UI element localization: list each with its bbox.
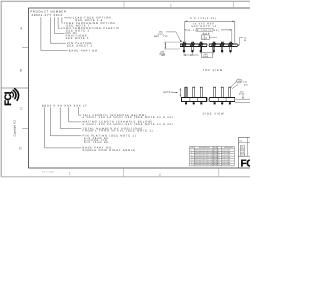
top view pin 4 tail [213, 47, 214, 51]
title block frame [238, 138, 250, 169]
svg-text:FCI: FCI [241, 158, 251, 169]
tree2 leader: total positions [60, 107, 81, 128]
inner drawing frame [29, 8, 250, 168]
small right dim [239, 90, 245, 95]
tail pitch dim line [184, 54, 199, 56]
top view pin 4 mating end [211, 42, 215, 47]
pin length dim arrow [179, 88, 181, 97]
tree1 label: base part no [69, 49, 100, 52]
svg-text:B: B [20, 69, 22, 73]
tree2 label: base part no [83, 147, 136, 152]
FCI logo rotated [2, 92, 13, 106]
tree1 leader: pin plating [51, 17, 66, 43]
tree2 leader: tail length [79, 107, 82, 115]
dim .050 text [154, 31, 168, 38]
dim N-1 pitch: text [184, 29, 186, 30]
top view pin 3 mating end [199, 42, 203, 47]
tree1 leader: base part no [41, 17, 68, 50]
top view pin 1 mating end [182, 42, 186, 47]
tree1 leader: lead free [65, 16, 72, 19]
side view pin 3 [200, 87, 202, 97]
tree2 label: mating length [83, 121, 174, 126]
dim .050 leader [166, 32, 181, 42]
top view pin 2 mating end [190, 42, 194, 47]
side view base group1 [182, 98, 207, 102]
dim N-1 pitch: part box [196, 28, 213, 31]
svg-text:FCI: FCI [2, 92, 13, 106]
side view pin 4 [214, 87, 216, 97]
svg-text:N X.100(2.54): N X.100(2.54) [190, 17, 217, 20]
side view pin 6 [229, 87, 231, 97]
side view pin 2 tail [193, 102, 195, 104]
revision table text [190, 146, 234, 166]
tree2 leader: pin plating [50, 107, 81, 136]
title block cell text [241, 146, 246, 157]
balloon leader side view [231, 82, 237, 87]
svg-text:SIDE VIEW: SIDE VIEW [203, 113, 225, 116]
dim N-1 pitch: arrow line [221, 29, 232, 31]
svg-text:(5.: (5. [244, 39, 247, 42]
top view pin 6 mating end [228, 42, 232, 47]
dim .318 vertical arrow [164, 42, 166, 48]
svg-text:BASE PART NO.: BASE PART NO. [69, 49, 100, 52]
tree1 leader: tube packaging [61, 17, 64, 23]
svg-text:8=0.76um AU: 8=0.76um AU [84, 141, 109, 144]
svg-text:2: 2 [159, 173, 161, 177]
top margin zone ticks [123, 1, 125, 8]
zone tick C/D [22, 128, 29, 130]
svg-text:68602-XYY ZZLF: 68602-XYY ZZLF [32, 14, 63, 17]
top view pin 3 tail [200, 47, 201, 51]
svg-text:SEE NOTE 1: SEE NOTE 1 [66, 37, 90, 40]
side view base group2 [210, 98, 235, 102]
svg-text:SEE NOTE 15: SEE NOTE 15 [191, 25, 217, 28]
copyright text rotated [14, 120, 17, 137]
zone tick A/B [22, 47, 29, 49]
side view pin 1 tail [185, 102, 187, 104]
side view pin 2 [193, 87, 195, 97]
tree2 leader: mating length [69, 107, 82, 122]
base divider [197, 98, 199, 102]
bottom margin zone ticks [123, 168, 125, 177]
sheet outer faint border [1, 1, 250, 177]
svg-text:FROM 1 THRU 36 PVL (SEE NOTE 1: FROM 1 THRU 36 PVL (SEE NOTE 1) [83, 129, 154, 132]
svg-text:NOTE 6: NOTE 6 [163, 91, 173, 94]
dim overall: text [190, 17, 217, 28]
svg-text:TYP: TYP [163, 35, 168, 38]
tree2 label: pin plating [83, 135, 137, 144]
tree1 label: lead free [73, 17, 112, 23]
base divider [217, 98, 219, 102]
title block small cells [240, 145, 245, 156]
tree2 label: tail length [83, 114, 174, 119]
svg-text:GS 01 994: GS 01 994 [42, 171, 54, 174]
boxed dim .100 pitch [202, 52, 213, 57]
top view pin 2 tail [192, 47, 193, 51]
base divider [189, 98, 191, 102]
svg-text:Copyright FCI: Copyright FCI [14, 120, 17, 137]
tree1 label: pin plating [67, 42, 93, 48]
logo box divider [1, 87, 28, 89]
tree1 label: no of positions [66, 32, 90, 40]
tree1 leader: no of positions [54, 17, 64, 33]
side view pin 1 [185, 87, 187, 97]
side view base break marks [206, 97, 209, 102]
svg-text:REF: REF [161, 54, 166, 57]
svg-text:1: 1 [69, 171, 71, 175]
right edge cut dim (top view) [237, 38, 243, 45]
side view pin 3 tail [200, 102, 202, 104]
top view pin 6 tail [230, 47, 231, 51]
base divider [225, 98, 227, 102]
tree2 leader: base part no [45, 107, 82, 148]
side view pin 6 tail [229, 102, 231, 104]
dim .318 text [159, 51, 166, 57]
svg-text:6.0mm=.200 23.5mm=.925 (SEE: 6.0mm=.200 23.5mm=.925 (SEE NOTE 11 & 12… [83, 123, 174, 126]
svg-text:MAX: MAX [154, 35, 159, 38]
svg-text:4.5mm=.128 14.5mm=.528 (SEE: 4.5mm=.128 14.5mm=.528 (SEE NOTE 11 & 12… [83, 116, 174, 119]
tree1 leader: high temp plastic [58, 17, 60, 28]
svg-text:⊥ .10: ⊥ .10 [202, 36, 208, 39]
top view housing bar group2 [209, 44, 237, 47]
svg-text:TOP VIEW: TOP VIEW [203, 69, 223, 72]
svg-text:(2.54): (2.54) [203, 55, 209, 58]
side view pin 5 tail [221, 102, 223, 104]
overall dim bracket [185, 21, 235, 44]
top view housing bar group1 [180, 44, 207, 47]
side view pin 4 tail [214, 102, 216, 104]
tree1 label: tube packaging [64, 22, 115, 28]
revision table [190, 146, 235, 166]
top view pin 1 tail [183, 47, 184, 51]
top view bar break marks [206, 44, 208, 47]
svg-text:(0.53): (0.53) [239, 93, 245, 96]
side view pin 5 [221, 87, 223, 97]
FCI logo waves [12, 89, 19, 101]
tree1 label: high temp plastic [62, 27, 121, 33]
tree2 label: total positions [83, 127, 154, 132]
datum box top [202, 35, 210, 40]
top view pin 5 mating end [220, 42, 224, 47]
svg-text:SEE SHEET 2: SEE SHEET 2 [67, 45, 93, 48]
svg-text:PRODUCT NUMBER: PRODUCT NUMBER [31, 10, 67, 13]
svg-text:2: 2 [170, 3, 172, 7]
pcb reference lines right [235, 98, 250, 100]
top view pin 5 tail [221, 47, 222, 51]
svg-text:SINGLE ROW RIGHT ANGLE: SINGLE ROW RIGHT ANGLE [83, 149, 136, 152]
svg-text:BB03-X XX-XXX XXX LF: BB03-X XX-XXX XXX LF [42, 104, 88, 107]
